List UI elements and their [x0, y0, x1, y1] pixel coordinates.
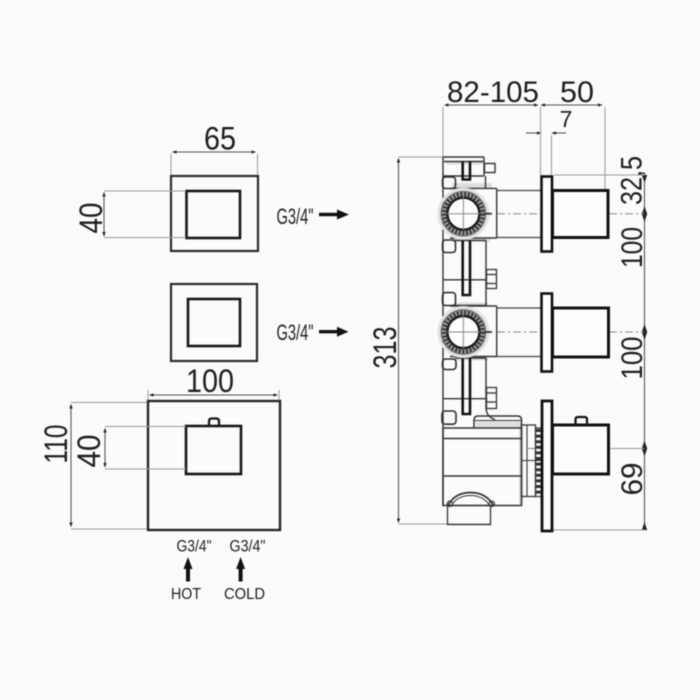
svg-text:32,5: 32,5: [616, 156, 649, 205]
svg-text:40: 40: [71, 435, 107, 468]
svg-text:313: 313: [367, 327, 403, 369]
svg-text:G3/4": G3/4": [277, 204, 314, 229]
svg-text:COLD: COLD: [224, 586, 265, 603]
svg-text:82-105: 82-105: [447, 76, 539, 109]
svg-text:7: 7: [560, 106, 573, 132]
svg-text:40: 40: [73, 203, 109, 234]
svg-text:100: 100: [616, 227, 649, 268]
svg-text:100: 100: [616, 337, 649, 380]
svg-text:G3/4": G3/4": [230, 537, 266, 556]
svg-text:50: 50: [560, 76, 594, 109]
svg-text:G3/4": G3/4": [277, 320, 314, 345]
svg-text:65: 65: [204, 121, 236, 157]
svg-text:HOT: HOT: [171, 586, 201, 603]
svg-text:100: 100: [186, 363, 234, 399]
svg-text:69: 69: [616, 463, 649, 496]
svg-text:G3/4": G3/4": [177, 537, 212, 556]
svg-text:110: 110: [38, 425, 74, 464]
